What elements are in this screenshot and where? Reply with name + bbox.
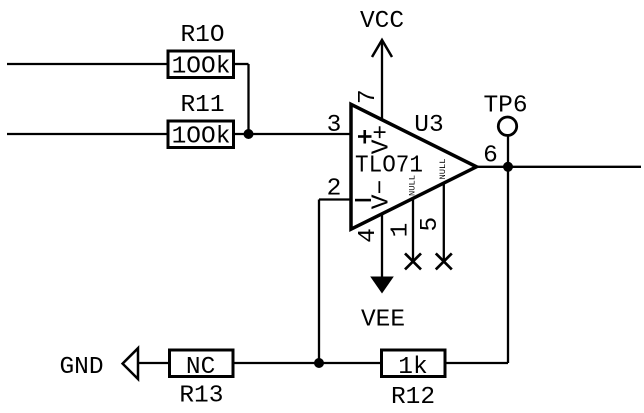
minus mark input xyxy=(355,199,371,202)
junction dot node A xyxy=(244,129,254,139)
svg-text:7: 7 xyxy=(355,89,382,104)
wire mid rail left into R11 xyxy=(7,133,168,135)
wire vertical R10 down to junction xyxy=(247,64,249,134)
wire R13 to GND arrow xyxy=(139,362,170,364)
wire R11 to op-amp pin 3 xyxy=(234,133,352,135)
svg-text:1: 1 xyxy=(387,223,414,238)
wire top rail left into R10 xyxy=(7,63,168,65)
pin 1 line xyxy=(412,198,414,261)
pin 6 output wire xyxy=(477,166,642,168)
svg-text:R12: R12 xyxy=(391,384,435,411)
wire junction to R13 xyxy=(233,362,319,364)
no-connect X (pin 1) xyxy=(405,253,421,269)
no-connect X (pin 5) xyxy=(436,253,452,269)
resistor R12 xyxy=(382,350,446,377)
power symbol VCC arrow xyxy=(372,40,392,57)
svg-text:NULL: NULL xyxy=(408,175,418,196)
wire pin 2 vertical feedback xyxy=(318,200,320,364)
resistor R10 xyxy=(168,51,234,78)
svg-text:VCC: VCC xyxy=(360,8,404,35)
svg-text:GND: GND xyxy=(59,354,103,381)
test point TP6 wire xyxy=(507,136,509,167)
svg-text:3: 3 xyxy=(327,112,342,139)
svg-text:R11: R11 xyxy=(180,92,224,119)
svg-text:5: 5 xyxy=(417,217,444,232)
wire right vertical to R12 xyxy=(445,362,508,364)
wire pin 2 horizontal xyxy=(319,198,351,200)
wire R12 left to junction xyxy=(319,362,382,364)
plus mark input xyxy=(358,135,372,138)
svg-text:2: 2 xyxy=(327,176,342,203)
svg-text:1OOk: 1OOk xyxy=(172,124,231,151)
pin 7 line xyxy=(381,40,383,120)
svg-text:6: 6 xyxy=(483,143,498,170)
svg-text:R1O: R1O xyxy=(180,22,224,49)
power symbol VEE arrow xyxy=(370,277,394,294)
resistor R13 xyxy=(170,350,234,377)
test point TP6 circle xyxy=(498,117,516,135)
op-amp U3 triangle body xyxy=(351,104,477,229)
svg-text:4: 4 xyxy=(355,228,382,243)
svg-text:TP6: TP6 xyxy=(483,93,527,120)
svg-text:NC: NC xyxy=(186,354,215,381)
junction dot output node xyxy=(503,162,513,172)
resistor R11 xyxy=(168,121,234,148)
svg-text:VEE: VEE xyxy=(361,307,405,334)
svg-text:NULL: NULL xyxy=(438,159,448,180)
junction dot bottom node xyxy=(314,358,324,368)
svg-text:R13: R13 xyxy=(179,383,223,410)
svg-text:V−: V− xyxy=(369,180,396,209)
svg-text:1k: 1k xyxy=(398,354,427,381)
svg-text:U3: U3 xyxy=(414,112,443,139)
wire R10 to corner xyxy=(234,63,249,65)
pin 5 line xyxy=(443,183,445,261)
svg-text:V+: V+ xyxy=(369,125,396,154)
svg-text:1OOk: 1OOk xyxy=(172,54,231,81)
ground GND arrow symbol xyxy=(123,348,138,379)
wire output down right side xyxy=(507,167,509,363)
pin 4 line xyxy=(381,214,383,277)
